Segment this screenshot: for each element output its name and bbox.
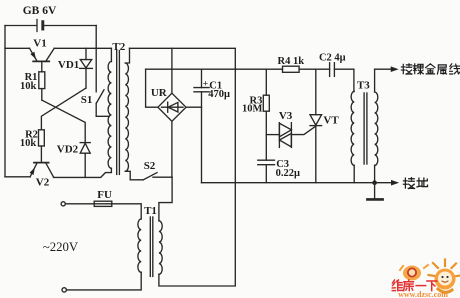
svg-text:GB 6V: GB 6V [23, 5, 57, 17]
wire UR top lead [171, 48, 173, 93]
transistor V2 [30, 163, 53, 177]
svg-text:V2: V2 [36, 176, 50, 188]
svg-text:VT: VT [323, 115, 339, 127]
switch S1 [96, 26, 109, 117]
wire left rail [4, 26, 6, 177]
transformer T1 primary winding [66, 219, 141, 290]
svg-text:VD1: VD1 [58, 59, 79, 71]
wire top DC rail [146, 68, 283, 70]
capacitor C2 [330, 63, 354, 77]
svg-text:S2: S2 [144, 160, 156, 172]
wire terminal to fuse [65, 203, 94, 205]
transformer T3 primary winding [351, 69, 354, 183]
wire V2 collector to T2 [54, 168, 112, 177]
svg-text:470μ: 470μ [208, 89, 230, 100]
diode VD1 [80, 48, 93, 88]
terminal AC live [61, 202, 65, 206]
wire UR right vertex [186, 106, 202, 108]
svg-text:V3: V3 [279, 110, 293, 122]
watermark text wei ku yi xia [392, 280, 436, 291]
transformer T3 secondary winding [375, 69, 378, 183]
svg-text:R4 1k: R4 1k [278, 56, 305, 67]
label C1 470u [203, 80, 230, 100]
battery GB (6V) [37, 20, 43, 32]
svg-text:10k: 10k [20, 138, 37, 149]
label R2 10k [20, 130, 38, 150]
transformer T1 secondary winding [159, 221, 162, 275]
wire bottom rail [202, 182, 392, 184]
watermark mascot [429, 260, 460, 293]
wire V1 collector to T2 [54, 47, 111, 49]
wire fence output arrow [375, 67, 398, 72]
watermark logo emblem [400, 265, 428, 281]
wire UR bottom to T1 secondary top [159, 121, 172, 221]
transistor V1 [30, 48, 55, 61]
diode VD2 [80, 143, 90, 178]
diac V3 [266, 123, 315, 148]
bridge rectifier UR [158, 93, 186, 121]
label jie di (ground) [403, 178, 427, 189]
svg-text:T3: T3 [357, 80, 370, 92]
label R1 10k [20, 72, 37, 92]
transformer T2 primary winding [108, 48, 111, 168]
node T3 secondary bottom junction [372, 180, 377, 185]
transformer T2 core [117, 51, 120, 175]
capacitor C3 [258, 160, 275, 183]
label R3 10M [242, 95, 263, 114]
wire cross R1 to VD2 [42, 100, 85, 142]
fuse FU [94, 201, 112, 206]
svg-text:V1: V1 [33, 38, 46, 50]
wire rail R4 to C2 [299, 68, 330, 70]
svg-text:10M: 10M [242, 104, 263, 115]
switch S2 [143, 173, 172, 180]
ground [367, 183, 382, 200]
transformer T1 core [150, 217, 153, 276]
resistor R2 [39, 130, 45, 162]
wire V1 emitter [5, 47, 30, 49]
resistor R4 [283, 66, 300, 72]
terminal AC neutral [62, 288, 66, 292]
wire fuse to T1 [112, 204, 141, 219]
wire ground output arrow [391, 180, 398, 185]
thyristor VT [310, 69, 322, 183]
wire UR left vertex up [146, 69, 158, 107]
label C3 0.22u [276, 159, 300, 179]
svg-text:www.dzsc.com: www.dzsc.com [398, 290, 448, 298]
label jie luo jin shu xian (connect bare metal wire) [401, 64, 459, 74]
svg-text:C2 4μ: C2 4μ [319, 53, 346, 64]
transformer T2 secondary winding [125, 48, 143, 180]
svg-text:VD2: VD2 [57, 144, 79, 156]
wire top rail battery [5, 25, 96, 27]
wire left rail bottom to V2 emitter [5, 176, 30, 178]
svg-text:10k: 10k [20, 81, 37, 92]
svg-text:S1: S1 [81, 94, 93, 106]
transformer T3 core [364, 93, 367, 164]
capacitor C1 [194, 69, 209, 183]
wire cross VD1 to R2 [41, 88, 86, 130]
svg-text:T2: T2 [112, 41, 125, 53]
svg-text:T1: T1 [144, 205, 157, 217]
svg-text:UR: UR [151, 87, 168, 99]
resistor R1 [39, 61, 45, 100]
wire T2 top to T1 secondary bottom [130, 48, 236, 286]
svg-text:0.22μ: 0.22μ [276, 168, 300, 179]
svg-text:FU: FU [97, 189, 112, 201]
svg-text:~220V: ~220V [43, 240, 79, 254]
resistor R3 [263, 69, 269, 160]
